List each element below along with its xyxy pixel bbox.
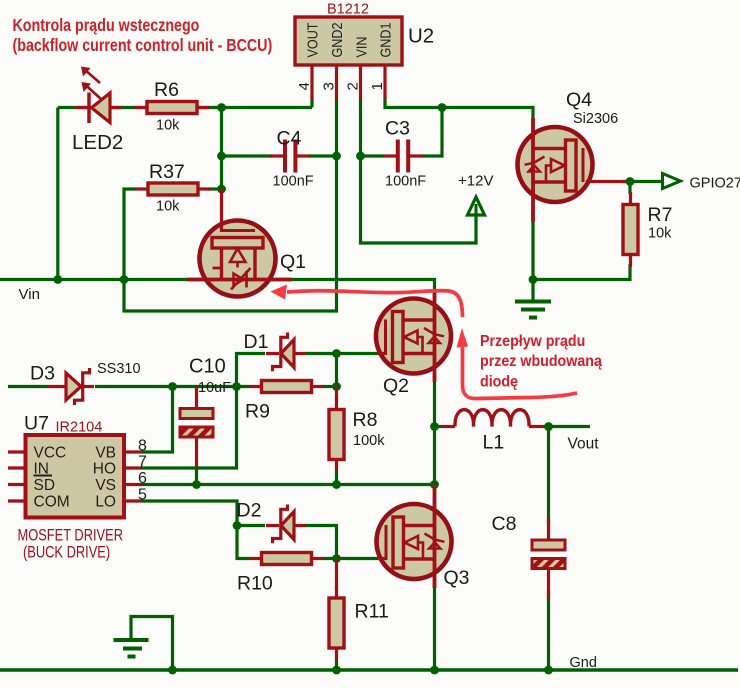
svg-text:Vout: Vout [568,436,600,453]
IC U7 IR2104 body [26,435,125,518]
svg-text:diodę: diodę [480,374,518,391]
Q2 channel lead [433,290,437,382]
junction R6 right [217,103,226,112]
wire LO pin5 down to D2 row [141,501,237,526]
svg-text:10uF: 10uF [198,380,231,396]
annotation arrow to Q1 (current path) [271,285,463,318]
svg-text:6: 6 [138,470,147,487]
U7 right pin stub 5 [124,499,141,502]
wire R6 to R37 column [220,108,223,190]
wire U2 pin2 VIN down to +12V [361,97,477,243]
wire D1 right to Q2 gate [304,352,378,355]
U2 pin stub 2 [359,65,362,99]
svg-text:10k: 10k [648,226,672,242]
SD overline [34,475,53,477]
wire LED2 left drop to Vin [56,108,59,280]
junction R10 right [332,554,341,563]
svg-text:4: 4 [296,82,313,90]
wire LED2 R6 row [58,106,312,109]
resistor R37 [136,183,211,195]
junction L1 right Vout [544,422,553,431]
svg-text:Gnd: Gnd [570,655,597,671]
U7 right pin stub 6 [124,483,141,486]
wire Q4 source down to ground row [531,205,534,280]
U2 pin stub 3 [335,65,338,99]
svg-text:VIN: VIN [352,37,369,58]
svg-text:10k: 10k [156,199,180,215]
svg-text:U2: U2 [408,25,434,48]
capacitor C10 polarized [180,387,213,468]
junction VS at Q3 [430,480,439,489]
wire Vin rail to Q2 drain [0,280,435,303]
wire Q4 ground row to R7 bottom [533,264,630,280]
output port GPIO27 [663,174,681,189]
svg-text:Przepływ prądu: Przepływ prądu [480,334,585,351]
resistor R11 [329,586,344,661]
ground symbol at Q4 [515,280,551,318]
svg-text:LED2: LED2 [72,131,123,154]
diode D3 SS310 [48,368,94,405]
wire U2 pin1 GND1 to Q4 drain [385,97,533,125]
U7 right pin stub 7 [124,466,141,469]
svg-text:100k: 100k [353,433,385,449]
wire D3 left [8,385,48,388]
capacitor C3 [383,140,423,173]
U7 left pin stub row 6 [8,483,26,486]
svg-text:VCC: VCC [34,445,67,462]
svg-text:przez wbudowaną: przez wbudowaną [480,354,603,371]
svg-text:SS310: SS310 [97,361,141,377]
junction C10 on VS [192,480,201,489]
wire Q2 source to Q3 drain column [433,370,436,508]
Q1 gate lead [220,189,223,232]
wire D1 right junction down to R9 right [335,354,338,387]
U7 left pin stub row 5 [8,499,26,502]
IC U2 B1212 module body [295,17,402,65]
junction C4 right [332,152,341,161]
Q1 channel lead [187,278,292,282]
wire C4 row left [222,154,273,157]
svg-text:LO: LO [95,494,116,511]
svg-text:U7: U7 [24,413,49,435]
junction C3 left [356,152,365,161]
wire HO pin7 to D1 left column [141,354,265,469]
wire VB pin8 elbow up to bootstrap node [141,387,173,453]
ground symbol bottom left [114,640,149,657]
wire C3 row right elbow up [422,108,443,157]
junction R9 right [332,382,341,391]
wire Q3 gate feed [337,557,379,560]
svg-text:Q3: Q3 [444,567,470,589]
svg-text:IR2104: IR2104 [56,420,103,436]
svg-text:D1: D1 [244,331,269,353]
wire R37 right [208,187,222,190]
junction rail C8 [544,666,553,675]
junction bootstrap VB [168,382,177,391]
junction Q4 source ground [529,275,538,284]
supply symbol +12V [468,197,485,215]
wire R9 right to junction [323,385,337,388]
svg-text:R6: R6 [154,79,179,101]
junction rail ground [168,666,177,675]
Q3 gate lead [378,557,388,560]
svg-text:D2: D2 [237,500,262,522]
svg-text:GND1: GND1 [376,22,393,57]
svg-text:(BUCK DRIVE): (BUCK DRIVE) [23,544,110,562]
svg-text:SD: SD [34,477,56,494]
svg-text:+12V: +12V [458,173,493,190]
wire C8 bottom to rail [547,590,550,670]
junction R8 on VS [332,480,341,489]
svg-text:VS: VS [95,477,116,494]
svg-text:HO: HO [93,461,116,478]
capacitor C4 [270,140,310,173]
junction R37 right gate [217,185,226,194]
svg-text:Q1: Q1 [280,251,306,273]
resistor R8 [329,397,344,472]
diode D2 [266,505,305,544]
svg-text:2: 2 [345,82,362,90]
wire D2 right elbow down [304,526,337,559]
svg-text:C10: C10 [189,356,226,378]
Q4 gate lead [586,180,626,183]
inductor L1 [441,410,543,427]
wire GND2 column down jog to R37 left [124,97,337,311]
junction LED drop on Vin [53,275,62,284]
svg-text:Kontrola prądu wstecznego: Kontrola prądu wstecznego [13,17,200,36]
svg-text:3: 3 [321,82,338,90]
U7 left pin stub row 7 [8,466,26,469]
capacitor C8 polarized [532,518,565,599]
wire R8 bottom link [335,471,338,485]
resistor R9 [249,381,324,393]
svg-text:GPIO27: GPIO27 [690,176,740,192]
U2 pin stub 4 [310,65,313,99]
Q4 channel lead [531,118,535,222]
svg-text:Si2306: Si2306 [573,111,618,127]
svg-text:VB: VB [95,445,116,462]
svg-text:Q2: Q2 [383,375,409,397]
wire R11 bottom to rail [335,658,338,670]
junction R37 drop on Vin [120,275,129,284]
wire U2 pin4 elbow [310,97,313,108]
wire D3 right to R9 left [95,385,249,388]
wire ground rail [0,668,738,672]
svg-text:8: 8 [138,438,147,455]
resistor R7 [623,192,638,267]
svg-text:COM: COM [34,494,70,511]
transistor Q2 MOSFET [376,290,451,382]
junction rail Q3 [430,666,439,675]
svg-text:GND2: GND2 [328,23,345,58]
junction D1 right [332,349,341,358]
transistor Q4 MOSFET [518,118,627,222]
junction L1 left [430,422,439,431]
wire C10 bottom link [195,466,198,485]
svg-text:VOUT: VOUT [303,22,320,57]
svg-text:7: 7 [138,454,147,471]
junction R9 left [232,382,241,391]
diode D1 [266,333,305,372]
transistor Q1 MOSFET [187,189,292,297]
svg-text:C8: C8 [492,513,517,535]
U2 pin stub 1 [383,65,386,99]
svg-text:5: 5 [138,487,147,504]
junction C3 top right [438,103,447,112]
wire R10 right to junction [323,557,337,560]
wire L1 left link [435,425,442,428]
wire Vout column to C8 [547,427,550,525]
wire C4 row right [308,154,337,157]
U7 left pin stub row 8 [8,450,26,453]
junction C4 left [217,152,226,161]
Q2 gate lead [378,352,387,355]
svg-text:R7: R7 [648,204,673,226]
resistor R6 [135,102,210,114]
resistor R10 [249,553,324,565]
wire Q4 gate row R7 top GPIO27 [622,180,663,183]
svg-text:1: 1 [369,82,386,90]
wire VS net row [141,483,435,486]
svg-text:MOSFET DRIVER: MOSFET DRIVER [18,527,123,545]
wire D2 left column to R10 [237,526,249,559]
svg-text:L1: L1 [483,432,505,454]
Q3 channel lead [433,485,437,589]
svg-text:R8: R8 [353,409,378,431]
svg-text:100nF: 100nF [273,174,314,190]
svg-text:D3: D3 [30,363,55,385]
LED LED2 [76,67,122,124]
svg-text:C3: C3 [385,118,410,140]
annotation arrow through Q2 body diode [457,328,578,399]
wire Q3 source to ground rail [433,578,436,670]
wire C3 row left [361,154,385,157]
svg-text:10k: 10k [156,118,180,134]
transistor Q3 MOSFET [377,485,452,589]
junction D2 left [233,521,242,530]
svg-text:R10: R10 [237,573,273,595]
wire L1 right to Vout [543,425,590,428]
wire left ground symbol stem [131,617,173,671]
svg-text:R11: R11 [355,601,389,623]
svg-text:100nF: 100nF [385,174,426,190]
junction Q4 gate R7 [626,177,635,186]
svg-text:Q4: Q4 [566,89,592,111]
wire D2 row left [237,524,265,527]
svg-text:R9: R9 [245,401,270,423]
svg-text:C4: C4 [277,128,302,150]
U7 right pin stub 8 [124,450,141,453]
junction rail R11 [332,666,341,675]
svg-text:B1212: B1212 [327,2,369,18]
svg-text:(backflow current control unit: (backflow current control unit - BCCU) [13,37,273,56]
wire R7 top stub link [628,182,631,195]
svg-text:R37: R37 [149,161,185,183]
svg-text:Vin: Vin [19,286,40,303]
